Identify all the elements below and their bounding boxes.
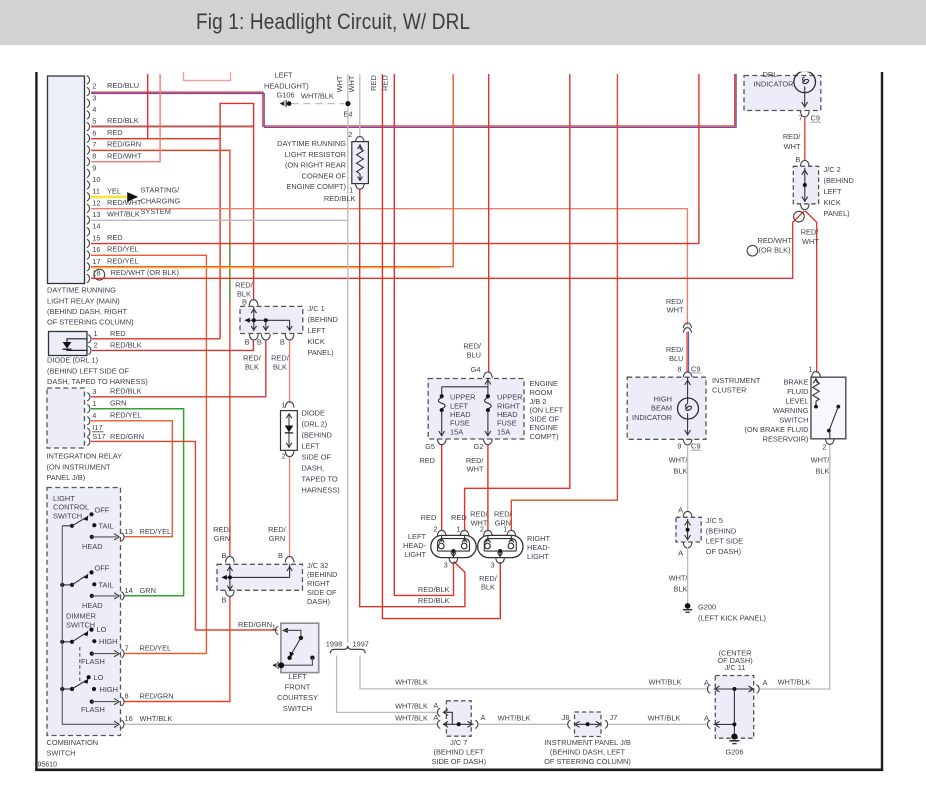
svg-text:RED/BLK: RED/BLK (110, 386, 142, 395)
svg-text:2: 2 (348, 130, 352, 139)
wire WHT vertical 2 from top to resistor pin 2 (359, 74, 361, 137)
arrow to STARTING/CHARGING SYSTEM (127, 192, 138, 202)
svg-text:LEFT: LEFT (450, 401, 469, 410)
svg-text:RED: RED (421, 513, 437, 522)
svg-text:B: B (245, 337, 250, 346)
wire RED/WHT relay pin 8 to top (91, 74, 160, 162)
svg-text:J/C 11: J/C 11 (725, 663, 746, 672)
svg-text:TAIL: TAIL (99, 522, 114, 531)
svg-text:HARNESS): HARNESS) (302, 486, 340, 495)
svg-text:WHT/BLK: WHT/BLK (498, 713, 531, 722)
svg-text:LO: LO (94, 673, 104, 682)
svg-text:(LEFT KICK PANEL): (LEFT KICK PANEL) (698, 613, 766, 622)
svg-text:RED/: RED/ (235, 281, 254, 290)
svg-text:RED/: RED/ (466, 456, 485, 465)
svg-text:RIGHT: RIGHT (497, 401, 520, 410)
svg-text:CHARGING: CHARGING (141, 196, 181, 205)
svg-text:WARNING: WARNING (773, 406, 809, 415)
svg-text:BLK: BLK (245, 362, 259, 371)
svg-text:A: A (433, 701, 438, 710)
svg-text:RED/: RED/ (268, 525, 287, 534)
svg-text:RIGHT: RIGHT (307, 579, 330, 588)
relay K1 pin 1 (87, 76, 90, 84)
svg-text:RED/GRN: RED/GRN (110, 432, 144, 441)
junction box J/C 1 (BEHIND LEFT KICK PANEL) (235, 281, 303, 347)
svg-text:1997: 1997 (352, 640, 368, 649)
svg-text:RED: RED (451, 513, 467, 522)
svg-text:FLASH: FLASH (81, 657, 105, 666)
svg-text:WHT/BLK: WHT/BLK (107, 210, 140, 219)
wire WHT/BLK J/C 11 right pin to brake fluid switch (760, 445, 830, 690)
svg-text:2: 2 (281, 452, 285, 461)
wire RED/WHT relay pin 12 to instrument cluster pin 8 (splice) (91, 209, 687, 326)
relay K1 pin 16 (87, 245, 139, 260)
relay K1 pin 5 (87, 116, 139, 131)
svg-text:DASH): DASH) (307, 597, 330, 606)
svg-text:(BEHIND: (BEHIND (307, 570, 337, 579)
switch S1 light control section 1 (OFF/TAIL/HEAD) pin 13 (62, 506, 171, 552)
svg-text:(ON LEFT: (ON LEFT (530, 406, 564, 415)
label RED/BLK right headlight pin 3 (479, 574, 498, 592)
svg-text:HIGH: HIGH (654, 395, 672, 404)
switch S2 label LEFT FRONT COURTESY SWITCH (277, 672, 318, 713)
svg-text:A: A (433, 713, 438, 722)
svg-text:B: B (278, 551, 283, 560)
svg-text:(BEHIND DASH, LEFT: (BEHIND DASH, LEFT (550, 747, 626, 756)
wire RED/BLK relay pin 5 to node at x253.6 (91, 126, 254, 127)
svg-text:B: B (222, 596, 227, 605)
wire RED/WHT J/C 1 to diode DRL 2 pin 1 (289, 341, 291, 403)
svg-text:4: 4 (92, 411, 96, 420)
svg-text:SWITCH: SWITCH (283, 704, 312, 713)
label RED/BLK under resistor (324, 194, 356, 203)
wire RED/BLU splice to cluster pin 8 (687, 332, 689, 373)
label RED/BLK RED/BLK near headlight pin 3 wires (418, 585, 450, 605)
wire RED/GRN diode D2 pin 2 to J/C 32 (289, 457, 291, 557)
svg-text:CLUSTER: CLUSTER (712, 385, 747, 394)
label STARTING/CHARGING SYSTEM (141, 186, 181, 216)
wire WHT/BLK E4 down to 1997/1998 split (347, 106, 349, 643)
svg-text:DIODE (DRL 1): DIODE (DRL 1) (47, 356, 98, 365)
svg-text:BEAM: BEAM (651, 404, 672, 413)
switch S1 dimmer section 2 (LO/HIGH/FLASH) pin 8 (60, 673, 173, 714)
svg-text:BLK: BLK (816, 466, 830, 475)
switch S1 LIGHT CONTROL SWITCH label (53, 494, 89, 520)
svg-text:RED: RED (381, 75, 390, 91)
wire RED/BLU relay pin 2 to top (91, 74, 736, 128)
svg-text:1: 1 (456, 524, 460, 533)
model year split 1998/1997 brace (326, 640, 369, 654)
svg-text:J8: J8 (562, 713, 570, 722)
svg-text:RED/WHT: RED/WHT (107, 151, 142, 160)
svg-text:95610: 95610 (38, 762, 58, 769)
ground G200 (LEFT KICK PANEL) (683, 603, 766, 623)
svg-text:ROOM: ROOM (530, 388, 553, 397)
label WHT/BLK under cluster (669, 456, 689, 476)
svg-text:HIGH: HIGH (100, 685, 118, 694)
label RED/WHT (783, 132, 802, 151)
svg-text:J/C 7: J/C 7 (450, 738, 467, 747)
svg-text:PANEL J/B): PANEL J/B) (47, 473, 86, 482)
svg-text:RED: RED (369, 75, 378, 91)
svg-text:BLK: BLK (674, 584, 688, 593)
wire RED relay pin 6 to junction x220 (91, 138, 220, 140)
svg-text:OF STEERING COLUMN): OF STEERING COLUMN) (47, 318, 134, 327)
svg-text:PANEL): PANEL) (824, 209, 850, 218)
fuse F2 UPPER RIGHT HEAD FUSE 15A label (497, 393, 522, 437)
svg-text:3: 3 (490, 560, 494, 569)
svg-text:RED/BLK: RED/BLK (107, 116, 139, 125)
svg-text:B: B (795, 155, 800, 164)
svg-text:UPPER: UPPER (497, 393, 522, 402)
svg-text:RED/BLK: RED/BLK (418, 596, 450, 605)
svg-text:WHT/: WHT/ (811, 456, 831, 465)
frame border right (881, 72, 883, 771)
junction box J/C 11 (CENTER OF DASH) (704, 648, 768, 738)
wire RED bridge node (220,103.4)-(253.6,103.4) and verticals to diode DRL1 / J.C 1 (220, 103, 254, 338)
label RED/BLU above G4 (463, 342, 482, 360)
svg-text:OF DASH): OF DASH) (706, 547, 741, 556)
relay K1 pin 4 (87, 105, 97, 119)
svg-text:WHT: WHT (335, 75, 344, 92)
switch S3 label (744, 378, 808, 444)
wire RED/GRN top to right headlight pin 1 (511, 74, 617, 531)
svg-text:FLUID: FLUID (787, 387, 808, 396)
svg-text:GRN: GRN (214, 534, 230, 543)
node G2 (466, 439, 492, 474)
svg-text:DASH,: DASH, (302, 464, 325, 473)
svg-text:LIGHT: LIGHT (527, 552, 549, 561)
wire RED vertical (RED label) to right headlight pin 3 (382, 74, 500, 619)
svg-text:(ON RIGHT REAR: (ON RIGHT REAR (285, 161, 346, 170)
wire WHT/BLK J/C 7 to instrument panel J/B (479, 723, 569, 725)
svg-text:C9: C9 (691, 364, 700, 373)
wire RED diode D1 pin 1 (92, 338, 220, 340)
svg-text:15A: 15A (450, 427, 463, 436)
svg-text:RED/: RED/ (801, 228, 820, 237)
svg-text:FUSE: FUSE (450, 419, 470, 428)
label RED/BLU below splice (666, 345, 685, 363)
svg-text:9: 9 (677, 442, 681, 451)
junction box J/C 32 label (307, 561, 337, 606)
junction box INSTRUMENT PANEL J/B label (544, 738, 631, 766)
relay K1 pin 7 (87, 140, 141, 155)
indicator lamp HIGH BEAM INDICATOR box (627, 377, 706, 445)
svg-text:BLU: BLU (467, 350, 481, 359)
svg-text:RED/GRN: RED/GRN (107, 140, 141, 149)
switch S1 common bus wire to pin 16 (62, 526, 172, 729)
svg-text:RED/: RED/ (479, 574, 498, 583)
svg-text:LIGHT: LIGHT (53, 494, 75, 503)
svg-text:LEFT: LEFT (275, 71, 294, 80)
connector pin 9 C9 (677, 442, 701, 451)
svg-text:WHT: WHT (467, 465, 484, 474)
label INSTRUMENT CLUSTER (712, 376, 761, 394)
lamp RIGHT HEADLIGHT (478, 524, 523, 569)
relay K1 pin 2 (87, 81, 139, 96)
svg-text:A: A (763, 678, 768, 687)
relay K1 DAYTIME RUNNING LIGHT RELAY (MAIN) box (48, 76, 85, 284)
svg-text:2: 2 (433, 524, 437, 533)
wire WHT/BLK (dashed) G106 to E4 (292, 92, 345, 104)
switch S1 COMBINATION SWITCH box (47, 488, 121, 736)
svg-text:LIGHT: LIGHT (404, 550, 426, 559)
svg-text:A: A (678, 506, 683, 515)
svg-text:FRONT: FRONT (285, 683, 311, 692)
svg-text:G200: G200 (698, 603, 716, 612)
svg-text:J/C 5: J/C 5 (706, 516, 723, 525)
fusebox ENGINE ROOM J/B 2 (428, 378, 524, 440)
svg-text:WHT/BLK: WHT/BLK (395, 713, 428, 722)
svg-text:DIMMER: DIMMER (66, 612, 96, 621)
svg-text:13: 13 (92, 210, 100, 219)
svg-text:SWITCH: SWITCH (779, 416, 808, 425)
svg-text:COURTESY: COURTESY (277, 693, 318, 702)
svg-text:ENGINE: ENGINE (530, 379, 558, 388)
svg-text:INSTRUMENT: INSTRUMENT (712, 376, 761, 385)
relay K1 pin 14 (87, 222, 101, 236)
svg-text:LEFT: LEFT (302, 442, 321, 451)
wire WHT/BLK 1998 branch to J/C 7 (337, 656, 438, 713)
labels RED RED RED/WHT RED/GRN above headlight pins (421, 510, 513, 528)
relay K1 label (47, 286, 134, 327)
svg-text:RED/GRN: RED/GRN (140, 692, 174, 701)
svg-text:17: 17 (92, 257, 100, 266)
wire RED top to G4 (engine room J/B 2) (488, 74, 490, 373)
svg-text:J/C 1: J/C 1 (308, 304, 325, 313)
svg-text:C9: C9 (811, 114, 820, 123)
svg-text:ENGINE COMPT): ENGINE COMPT) (286, 182, 346, 191)
wire RED/BLK resistor pin 1 to left headlight pin 3 (diagonal) (360, 189, 465, 607)
junction box J/C 1 label (308, 304, 338, 357)
svg-text:HEAD: HEAD (450, 410, 471, 419)
svg-text:15A: 15A (497, 427, 510, 436)
ground G106 (280, 100, 292, 107)
svg-text:WHT/BLK: WHT/BLK (649, 678, 682, 687)
svg-text:LEFT: LEFT (824, 187, 843, 196)
wire RED/YEL relay pin 16 down to dimmer switch pin 7 (91, 255, 206, 653)
svg-text:RED/: RED/ (271, 354, 290, 363)
wire WHT/BLK J/C 5 to ground G200 (687, 548, 689, 604)
svg-text:LEFT: LEFT (308, 326, 327, 335)
svg-text:RED/: RED/ (463, 342, 482, 351)
label RED/WHT above splice (666, 297, 685, 315)
label LEFT HEADLIGHT) G106 (clipped component) (264, 71, 309, 100)
svg-text:RED/YEL: RED/YEL (107, 256, 139, 265)
relay K1 pin 6 (87, 128, 123, 143)
svg-text:RED/: RED/ (213, 525, 232, 534)
frame border left (35, 72, 37, 771)
svg-text:RED/BLK: RED/BLK (110, 340, 142, 349)
svg-text:15: 15 (92, 233, 100, 242)
svg-text:RESERVOIR): RESERVOIR) (763, 435, 809, 444)
connector pin 7 C9 DRL indicator (798, 114, 821, 123)
svg-text:J7: J7 (610, 713, 618, 722)
svg-text:(BEHIND: (BEHIND (824, 176, 854, 185)
svg-text:RED/GRN: RED/GRN (238, 620, 272, 629)
relay K1 pin 13 (87, 210, 140, 225)
svg-text:GRN: GRN (269, 534, 285, 543)
switch S1 light control section 2 (OFF/TAIL/HEAD) pin 14 (60, 564, 156, 611)
svg-text:RED: RED (107, 128, 123, 137)
svg-text:(BEHIND LEFT SIDE OF: (BEHIND LEFT SIDE OF (47, 366, 129, 375)
svg-text:G106: G106 (277, 91, 295, 100)
svg-text:5: 5 (92, 117, 96, 126)
node G4 (471, 365, 493, 378)
svg-text:2: 2 (480, 524, 484, 533)
svg-text:INDICATOR: INDICATOR (754, 80, 794, 89)
svg-text:INDICATOR: INDICATOR (632, 413, 672, 422)
svg-text:HEAD-: HEAD- (403, 541, 427, 550)
wire RED/GRN integration pin S17 to courtesy switch pin 1 (91, 441, 277, 630)
svg-text:2: 2 (822, 442, 826, 451)
svg-text:BLU: BLU (669, 354, 683, 363)
node G5 (419, 439, 446, 465)
svg-text:1: 1 (92, 399, 96, 408)
svg-text:WHT: WHT (802, 237, 819, 246)
diode D1 DIODE (DRL 1) (49, 329, 142, 356)
svg-text:RED/YEL: RED/YEL (110, 410, 142, 419)
note 95610 (38, 762, 58, 769)
svg-text:14: 14 (125, 586, 133, 595)
junction box J/C 2 label (824, 165, 854, 218)
clipped component (top, partial red box) (184, 66, 231, 81)
svg-text:LIGHT RESISTOR: LIGHT RESISTOR (285, 150, 346, 159)
svg-text:RED: RED (419, 456, 435, 465)
relay K1 pin 12 (87, 198, 142, 213)
svg-text:J/C 2: J/C 2 (824, 165, 841, 174)
svg-text:RED/: RED/ (666, 297, 685, 306)
svg-text:(OR BLK): (OR BLK) (759, 245, 791, 254)
svg-text:STARTING/: STARTING/ (141, 186, 181, 195)
svg-text:(BEHIND: (BEHIND (308, 315, 338, 324)
splice circle under J/C 2 (794, 211, 805, 222)
svg-text:SIDE OF DASH): SIDE OF DASH) (431, 757, 486, 766)
svg-text:12: 12 (92, 198, 100, 207)
svg-text:WHT: WHT (347, 75, 356, 92)
svg-text:11: 11 (92, 187, 100, 196)
svg-text:7: 7 (125, 644, 129, 653)
svg-text:OFF: OFF (95, 564, 110, 573)
lamp LEFT HEADLIGHT label (403, 532, 427, 559)
svg-text:TAIL: TAIL (99, 581, 114, 590)
svg-text:14: 14 (92, 222, 100, 231)
wire RED/GRN J/C 32 to combination switch pin 8 (124, 597, 230, 702)
svg-text:SIDE OF: SIDE OF (302, 453, 332, 462)
wire RED/BLK diode D1 pin 2 to J/C 1 (92, 341, 253, 351)
relay K1 pin 11 (87, 186, 121, 201)
svg-text:RED/WHT: RED/WHT (107, 198, 142, 207)
svg-text:SIDE OF: SIDE OF (307, 588, 337, 597)
svg-text:HEADLIGHT): HEADLIGHT) (264, 81, 309, 90)
resistor R1 label (277, 139, 346, 191)
svg-text:B: B (280, 337, 285, 346)
wire RED relay pin 15 to top (91, 74, 699, 244)
label RED/WHT right branch (801, 228, 820, 247)
wire RED/WHT J/C 2 to brake fluid switch pin 1 (805, 211, 816, 373)
svg-text:UPPER: UPPER (450, 393, 475, 402)
switch S1 dimmer mechanical link (dashed) (79, 647, 81, 683)
svg-text:RED/YEL: RED/YEL (107, 245, 139, 254)
svg-text:G2: G2 (474, 442, 484, 451)
relay K2 INTEGRATION RELAY (47, 386, 144, 448)
svg-text:9: 9 (92, 163, 96, 172)
resistor R1 DAYTIME RUNNING LIGHT RESISTOR (348, 130, 368, 194)
svg-text:8: 8 (125, 692, 129, 701)
diode D2 label (302, 409, 340, 495)
svg-text:(BEHIND DASH, RIGHT: (BEHIND DASH, RIGHT (47, 307, 128, 316)
svg-text:RED: RED (107, 233, 123, 242)
svg-text:RED: RED (110, 329, 126, 338)
svg-text:OF STEERING COLUMN): OF STEERING COLUMN) (544, 757, 631, 766)
svg-text:3: 3 (444, 560, 448, 569)
wire RED/WHT G2 to right headlight pin 2 (487, 445, 489, 531)
indicator lamp HIGH BEAM INDICATOR label (632, 395, 672, 422)
svg-text:GRN: GRN (140, 586, 156, 595)
svg-text:2: 2 (92, 82, 96, 91)
svg-text:WHT/BLK: WHT/BLK (140, 714, 173, 723)
junction box J/C 7 (BEHIND LEFT SIDE OF DASH) (433, 701, 485, 736)
svg-text:ENGINE: ENGINE (530, 423, 558, 432)
svg-text:13: 13 (125, 527, 133, 536)
splice on RED/WHT - RED/BLU wire (683, 323, 691, 333)
svg-text:HEAD: HEAD (82, 542, 103, 551)
switch S1 COMBINATION SWITCH label (47, 738, 99, 758)
diode D1 label (47, 356, 148, 386)
wire RED G5 to left headlight pin 2 (441, 445, 443, 531)
svg-text:WHT/: WHT/ (669, 456, 689, 465)
switch S2 LEFT FRONT COURTESY SWITCH (238, 620, 319, 673)
label RED/GRN on wires above J/C 32 (213, 525, 287, 543)
svg-text:KICK: KICK (308, 337, 325, 346)
svg-text:DRL: DRL (763, 70, 778, 79)
svg-text:G4: G4 (471, 365, 481, 374)
svg-text:BRAKE: BRAKE (783, 378, 808, 387)
relay K1 pin 17 (87, 256, 139, 271)
svg-text:B: B (242, 298, 247, 307)
svg-text:LEVEL: LEVEL (785, 397, 808, 406)
svg-text:C9: C9 (691, 442, 700, 451)
svg-text:7: 7 (798, 114, 802, 123)
svg-text:I17: I17 (92, 423, 102, 432)
svg-text:1: 1 (808, 365, 812, 374)
junction box J/C 2 (BEHIND LEFT KICK PANEL) (793, 155, 818, 210)
wire RED/YEL relay pin 17 to top (91, 74, 453, 268)
fuse F1 UPPER LEFT HEAD FUSE 15A label (450, 393, 475, 437)
svg-text:SWITCH: SWITCH (47, 749, 76, 758)
svg-text:G206: G206 (725, 747, 743, 756)
svg-text:LIGHT RELAY (MAIN): LIGHT RELAY (MAIN) (47, 296, 120, 305)
relay K1 pin 18 (87, 268, 179, 283)
svg-text:WHT/BLK: WHT/BLK (395, 678, 428, 687)
wire RED/YEL integration pin 4 to light control switch pin 13 (91, 421, 172, 537)
svg-text:1: 1 (94, 329, 98, 338)
junction box J/C 5 (BEHIND LEFT SIDE OF DASH) (676, 506, 701, 558)
svg-text:WHT: WHT (784, 142, 801, 151)
wire RED vertical (RED label) to left headlight pin 3 (394, 74, 453, 595)
svg-text:COMPT): COMPT) (530, 432, 559, 441)
svg-text:WHT/BLK: WHT/BLK (395, 701, 428, 710)
svg-text:(BEHIND: (BEHIND (706, 526, 736, 535)
svg-text:(BEHIND: (BEHIND (302, 431, 332, 440)
svg-text:BLK: BLK (674, 466, 688, 475)
label RED RED (rotated, top) (369, 75, 390, 91)
svg-text:BLK: BLK (481, 583, 495, 592)
svg-text:FLASH: FLASH (81, 705, 105, 714)
label WHT WHT (rotated) (335, 75, 356, 92)
svg-text:INTEGRATION RELAY: INTEGRATION RELAY (47, 452, 123, 461)
switch S3 BRAKE FLUID LEVEL WARNING SWITCH (808, 365, 845, 452)
